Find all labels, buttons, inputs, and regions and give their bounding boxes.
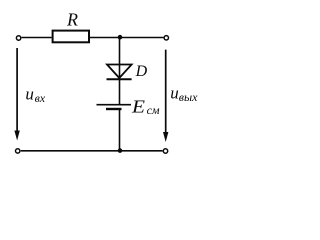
svg-text:E: E — [131, 97, 145, 117]
svg-text:u: u — [170, 83, 179, 102]
terminal bottom-right — [163, 149, 167, 153]
diode D triangle — [107, 65, 132, 79]
u_in arrowhead — [14, 131, 19, 141]
terminal top-right — [164, 36, 168, 40]
svg-text:вх: вх — [35, 91, 46, 105]
u_out voltage arrow shaft — [165, 50, 167, 134]
wire node A to terminal top-right — [120, 37, 163, 39]
svg-text:u: u — [25, 84, 34, 103]
wire top-left to resistor — [22, 37, 52, 39]
u_out arrowhead — [163, 132, 168, 142]
battery Ecm long plate — [97, 104, 132, 106]
node A (junction dot top) — [118, 35, 123, 40]
svg-text:вых: вых — [179, 90, 198, 104]
wire node A down to diode — [119, 38, 121, 79]
wire resistor to node A — [90, 37, 120, 39]
wire battery to node B — [119, 110, 121, 151]
terminal bottom-left — [16, 149, 20, 153]
node B (junction dot bottom) — [118, 148, 123, 153]
svg-text:см: см — [147, 103, 160, 117]
svg-text:R: R — [66, 10, 78, 30]
diode D cathode bar — [107, 78, 132, 80]
terminal top-left — [16, 36, 20, 40]
battery Ecm short thick plate — [106, 108, 122, 110]
u_in voltage arrow shaft — [16, 48, 18, 132]
wire diode to battery — [119, 79, 121, 104]
resistor R — [53, 31, 89, 43]
svg-text:D: D — [135, 63, 148, 80]
bottom wire — [21, 150, 163, 152]
